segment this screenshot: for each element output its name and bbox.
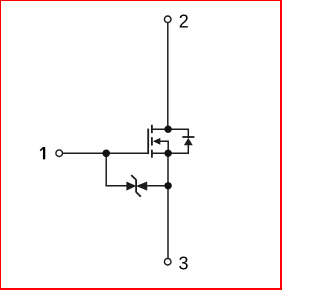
svg-text:3: 3 bbox=[179, 253, 189, 273]
svg-text:2: 2 bbox=[179, 11, 189, 31]
